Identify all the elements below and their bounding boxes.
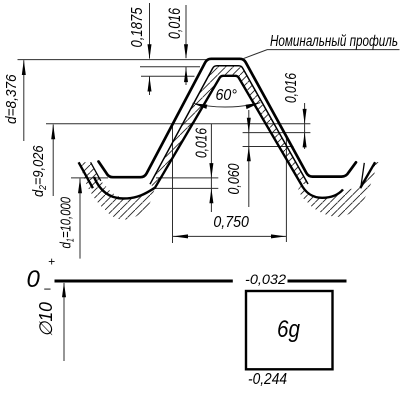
dimension 0.016 mid-left bbox=[210, 124, 212, 212]
svg-text:0,016: 0,016 bbox=[194, 128, 211, 158]
dimension 0.1875 line bbox=[149, 3, 151, 59]
wire extension line 0.060 lower level bbox=[243, 146, 294, 148]
wire extension line d2 level bbox=[46, 123, 310, 125]
svg-text:6g: 6g bbox=[277, 316, 301, 343]
zero line left segment bbox=[55, 280, 233, 283]
svg-text:0,750: 0,750 bbox=[213, 214, 249, 231]
svg-text:0,1875: 0,1875 bbox=[129, 7, 146, 47]
nominal thread profile outline bbox=[99, 59, 357, 177]
wire extension line d=8.376 level bbox=[18, 59, 207, 61]
svg-text:d1=10,000: d1=10,000 bbox=[58, 197, 77, 249]
inner tolerance profile with rounded roots bbox=[94, 76, 343, 199]
svg-text:60°: 60° bbox=[216, 87, 238, 104]
hatch tolerance band crest and flanks bbox=[150, 66, 308, 188]
angle arc 60 bbox=[193, 103, 261, 107]
dimension 0.060 bbox=[248, 110, 250, 207]
middle es-offset profile left stub bbox=[91, 162, 101, 181]
svg-text:d2=9,026: d2=9,026 bbox=[30, 145, 49, 197]
svg-text:-0,244: -0,244 bbox=[248, 371, 287, 388]
dimension 0.016 right bbox=[304, 103, 306, 149]
svg-text:−: − bbox=[44, 282, 52, 297]
wire 0.750 right extension bbox=[285, 137, 287, 242]
wire extension line root offset mid bbox=[154, 187, 218, 189]
wire extension line inner crest level bbox=[141, 75, 195, 77]
dimension 0.750 bbox=[173, 235, 286, 237]
diameter 10 leader line bbox=[63, 283, 65, 361]
middle es-offset profile right stub bbox=[361, 163, 364, 187]
svg-text:0,016: 0,016 bbox=[283, 73, 300, 103]
hatch left valley zone bbox=[79, 162, 155, 219]
svg-text:0,060: 0,060 bbox=[226, 163, 243, 194]
dimension d1=10.000 bbox=[79, 179, 81, 259]
inner tolerance profile right stub bbox=[360, 162, 375, 188]
wire 0.750 left extension bbox=[172, 126, 174, 243]
middle es-offset profile bbox=[150, 66, 308, 184]
svg-text:0: 0 bbox=[27, 266, 41, 293]
svg-text:0,016: 0,016 bbox=[165, 8, 184, 39]
inner tolerance profile left stub bbox=[79, 162, 93, 188]
wire extension line d1 level left bbox=[71, 177, 108, 179]
wire extension line root level mid bbox=[156, 177, 218, 179]
svg-text:Номинальный профиль: Номинальный профиль bbox=[270, 33, 398, 50]
wire extension line middle crest level bbox=[140, 66, 200, 68]
tolerance box 6g bbox=[246, 291, 333, 369]
leader nominal profile bbox=[243, 50, 400, 59]
zero line right segment bbox=[288, 280, 347, 283]
svg-text:∅10: ∅10 bbox=[36, 302, 56, 337]
wire extension line es offset level bbox=[243, 132, 311, 134]
dimension d=8.376 bbox=[23, 60, 25, 141]
dimension 0.016 top line bbox=[185, 5, 187, 58]
hatch right valley zone bbox=[298, 162, 379, 217]
svg-text:+: + bbox=[48, 255, 55, 269]
dimension d2=9.026 bbox=[52, 125, 54, 197]
svg-text:-0,032: -0,032 bbox=[245, 271, 286, 287]
svg-text:d=8,376: d=8,376 bbox=[3, 74, 20, 124]
